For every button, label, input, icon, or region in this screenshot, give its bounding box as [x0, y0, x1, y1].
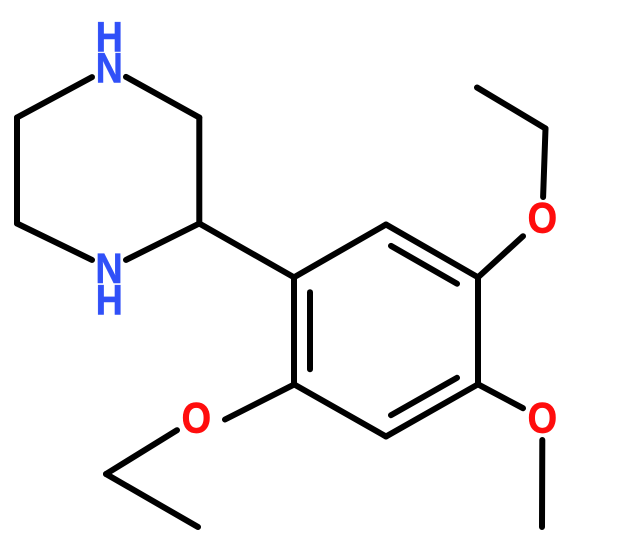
- bond CH2c-CH3c: [106, 474, 198, 527]
- svg-text:H: H: [96, 275, 123, 324]
- bond O1-CH2a: [543, 129, 545, 198]
- svg-text:O: O: [528, 193, 557, 242]
- bond C-O1 ethoxy oxygen link: [478, 236, 523, 277]
- bond C5-N4 piperazine bottom-left: [17, 224, 92, 260]
- bond C-D benzene right vertical: [475, 277, 481, 384]
- svg-text:N: N: [96, 43, 123, 92]
- bond N1-C2 piperazine top-right: [126, 77, 199, 118]
- bond D-E inner aromatic line: [391, 378, 457, 415]
- svg-text:O: O: [182, 393, 211, 442]
- bond D-E benzene bottom-right edge: [386, 384, 478, 436]
- bond N1-C6 piperazine top-left: [17, 77, 92, 117]
- bond F-O3 ethoxy oxygen link: [225, 384, 295, 419]
- bond B-C benzene top-right edge: [386, 225, 478, 278]
- bond E-F benzene bottom-left edge: [294, 384, 386, 436]
- bond D-O2 methoxy oxygen link: [478, 384, 523, 408]
- bond C3-A aryl attachment: [199, 224, 294, 278]
- bond A-B benzene top-left edge: [294, 225, 386, 278]
- bond O3-CH2c: [106, 430, 177, 474]
- bond CH2a-CH3a: [477, 88, 546, 129]
- svg-text:O: O: [528, 393, 557, 442]
- bond F-A inner aromatic line: [307, 292, 313, 369]
- bond C2-C3 piperazine right vertical: [196, 118, 202, 224]
- bond C3-N4 piperazine bottom-right: [126, 224, 199, 260]
- bond B-C inner aromatic line: [391, 246, 457, 284]
- bond C6-C5 piperazine left vertical: [14, 118, 20, 224]
- bond O2-CH3b: [539, 440, 545, 527]
- bond F-A benzene left vertical: [291, 277, 297, 384]
